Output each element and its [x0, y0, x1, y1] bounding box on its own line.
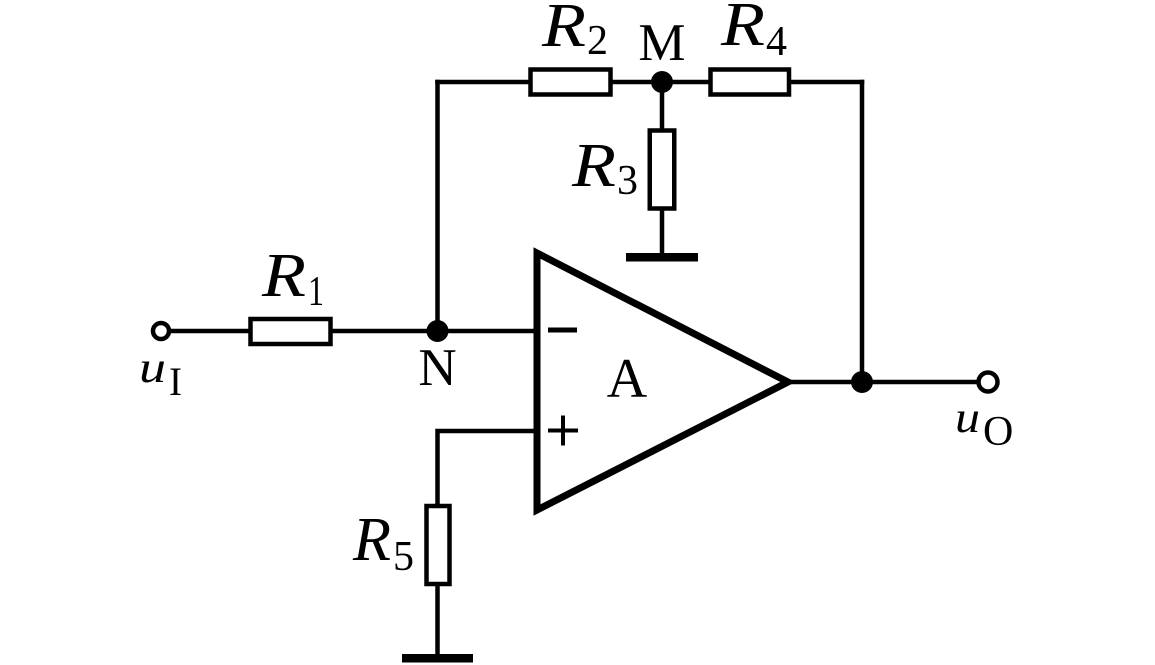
svg-text:N: N: [418, 339, 456, 397]
terminal u_O (output): [979, 373, 998, 392]
resistor R3: [650, 131, 675, 209]
op-amp U1 triangle: [537, 253, 788, 510]
wire: non-inverting input left and down through R5 to ground: [438, 431, 541, 656]
svg-text:R: R: [720, 0, 765, 59]
wire: input from u_I terminal through R1 and node N to inverting input: [171, 329, 540, 334]
wire: top feedback row through R2, node M, R4: [435, 80, 864, 85]
node: output junction dot: [851, 371, 873, 393]
label R5: [352, 506, 414, 580]
svg-text:1: 1: [308, 269, 324, 315]
svg-text:4: 4: [766, 19, 787, 65]
op-amp non-inverting pin marker (plus): [548, 416, 578, 446]
label u_O: [955, 393, 1013, 455]
wire: node M down to R3 and ground: [660, 82, 665, 258]
svg-text:R: R: [352, 506, 391, 574]
resistor R1: [251, 319, 331, 344]
ground under R3: [626, 253, 698, 262]
label u_I: [139, 343, 182, 404]
svg-text:M: M: [638, 14, 685, 72]
label R4: [720, 0, 787, 65]
svg-text:A: A: [607, 348, 648, 410]
label R3: [571, 132, 638, 204]
svg-text:3: 3: [617, 158, 638, 204]
svg-text:u: u: [955, 393, 980, 442]
svg-text:R: R: [541, 0, 586, 60]
resistor R4: [711, 70, 790, 95]
svg-text:5: 5: [393, 534, 414, 580]
svg-text:2: 2: [587, 18, 608, 64]
label R2: [541, 0, 608, 64]
ground under R5: [402, 654, 473, 663]
svg-text:O: O: [983, 409, 1013, 455]
node N junction dot: [427, 320, 449, 342]
wire: feedback right side down to output node: [860, 80, 865, 382]
wire: node N up to top feedback row: [435, 80, 440, 333]
resistor R2: [531, 70, 611, 95]
resistor R5: [427, 506, 450, 584]
wire: op-amp output to u_O terminal: [786, 380, 978, 385]
node M junction dot: [651, 71, 673, 93]
svg-text:R: R: [261, 242, 306, 310]
svg-text:u: u: [139, 343, 166, 392]
label R1: [261, 242, 324, 315]
terminal u_I (input): [153, 323, 169, 339]
svg-text:R: R: [571, 132, 616, 200]
svg-text:I: I: [169, 359, 182, 404]
op-amp inverting pin marker (minus): [548, 328, 577, 333]
